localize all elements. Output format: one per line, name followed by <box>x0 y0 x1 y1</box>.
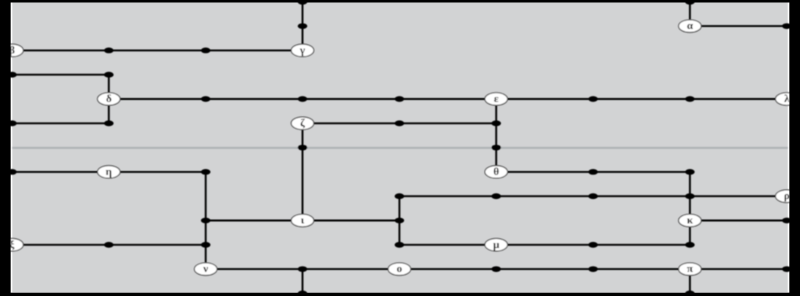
svg-text:ν: ν <box>202 263 208 275</box>
svg-text:ρ: ρ <box>784 190 790 202</box>
svg-text:λ: λ <box>784 93 790 105</box>
svg-text:ο: ο <box>397 263 403 275</box>
svg-text:μ: μ <box>493 239 500 251</box>
svg-text:θ: θ <box>493 166 499 178</box>
svg-text:ι: ι <box>301 215 305 227</box>
svg-text:π: π <box>687 263 693 275</box>
svg-text:γ: γ <box>299 44 305 56</box>
svg-text:ζ: ζ <box>300 117 305 129</box>
svg-text:η: η <box>106 166 112 178</box>
svg-text:κ: κ <box>687 215 694 227</box>
svg-text:α: α <box>687 20 694 32</box>
svg-text:δ: δ <box>106 93 112 105</box>
svg-text:ε: ε <box>494 93 499 105</box>
